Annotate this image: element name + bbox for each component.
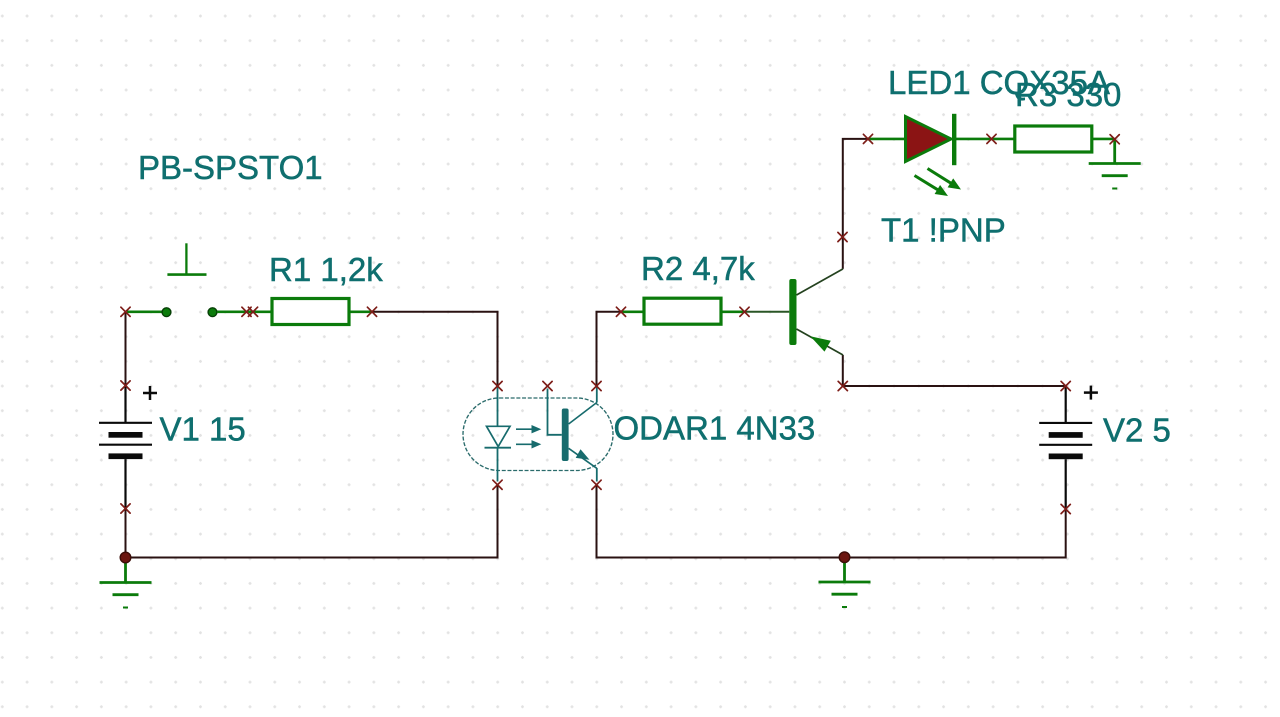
svg-text:V2 5: V2 5 [1103, 412, 1171, 449]
svg-text:R2 4,7k: R2 4,7k [641, 250, 755, 287]
svg-text:V1 15: V1 15 [160, 411, 246, 448]
svg-text:R3 330: R3 330 [1015, 76, 1121, 113]
svg-text:T1 !PNP: T1 !PNP [881, 211, 1006, 248]
svg-text:R1 1,2k: R1 1,2k [269, 251, 383, 288]
svg-text:ODAR1 4N33: ODAR1 4N33 [614, 410, 816, 447]
svg-text:PB-SPSTO1: PB-SPSTO1 [138, 149, 323, 186]
